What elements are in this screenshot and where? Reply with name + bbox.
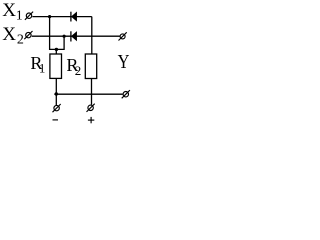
svg-text:Y: Y — [118, 51, 130, 73]
svg-text:2: 2 — [75, 63, 82, 78]
svg-text:2: 2 — [17, 32, 24, 47]
svg-text:X: X — [2, 0, 16, 21]
svg-text:1: 1 — [16, 9, 23, 24]
svg-text:1: 1 — [39, 60, 46, 75]
svg-text:X: X — [2, 24, 16, 45]
